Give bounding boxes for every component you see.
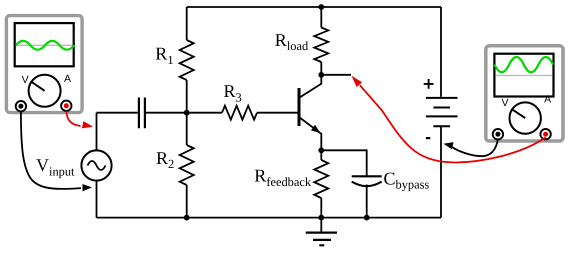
wire from input loop to coupling capacitor (97, 112, 138, 114)
right multimeter red terminal (540, 129, 550, 139)
source Vinput (AC source circle) (81, 150, 111, 180)
black probe lead from left multimeter to input loop bottom (21, 111, 81, 189)
transistor Q1 emitter arrowhead (311, 125, 320, 133)
svg-text:A: A (544, 94, 551, 106)
red probe lead from right multimeter to collector stub (360, 85, 546, 162)
red probe lead from left multimeter to input loop top (66, 111, 80, 126)
left multimeter input waveform (16, 41, 74, 50)
wire emitter to bypass capacitor (321, 150, 366, 176)
svg-text:A: A (64, 73, 71, 85)
resistor R2 (186, 113, 188, 145)
node R2 / bottom rail (184, 215, 190, 221)
capacitor C1 coupling (139, 98, 145, 129)
resistor R3 (187, 112, 222, 114)
transistor Q1 emitter (300, 118, 322, 151)
svg-text:Rfeedback: Rfeedback (254, 166, 312, 189)
wire collector probe stub (321, 74, 351, 76)
right multimeter screen (494, 54, 553, 97)
right multimeter body (486, 46, 563, 141)
capacitor Cbypass (352, 175, 382, 177)
node base (R1/R2/R3/C1) (184, 110, 190, 116)
svg-text:R1: R1 (155, 44, 173, 67)
battery V1 (440, 7, 442, 97)
left multimeter red terminal (61, 101, 71, 111)
resistor Rfeedback (320, 150, 322, 160)
svg-text:R3: R3 (224, 81, 242, 104)
black probe lead from right multimeter to battery minus (452, 139, 498, 156)
node Rfeedback / ground (318, 215, 324, 221)
right multimeter screen centerline (496, 74, 553, 76)
left multimeter screen centerline (16, 44, 73, 46)
ground symbol (320, 218, 322, 232)
battery minus sign (426, 137, 430, 139)
svg-text:Vinput: Vinput (36, 155, 75, 179)
svg-text:V: V (502, 97, 509, 109)
svg-text:V: V (22, 74, 29, 86)
left multimeter body (6, 16, 82, 113)
right multimeter output waveform (495, 57, 554, 72)
node Cbypass / bottom rail (364, 215, 370, 221)
resistor R1 (186, 7, 188, 40)
right multimeter dial (510, 102, 541, 133)
resistor Rload (320, 7, 322, 28)
left multimeter screen (15, 23, 74, 66)
wire input loop left vertical (96, 113, 98, 151)
svg-text:Cbypass: Cbypass (384, 168, 430, 191)
node emitter (318, 147, 324, 153)
node collector (318, 72, 324, 78)
left multimeter black terminal (16, 101, 26, 111)
transistor Q1 collector (300, 75, 322, 98)
wire from coupling capacitor to base node (146, 112, 187, 114)
node top rail / Rload junction (318, 4, 324, 10)
wire bottom ground rail (97, 217, 442, 219)
transistor Q1 base bar (298, 88, 301, 126)
svg-text:Rload: Rload (275, 30, 309, 53)
svg-text:R2: R2 (156, 148, 174, 171)
right multimeter black terminal (493, 129, 503, 139)
wire top supply rail (187, 6, 441, 8)
wire input loop bottom vertical (96, 181, 98, 218)
left multimeter dial (29, 75, 61, 107)
battery plus sign (424, 79, 434, 89)
